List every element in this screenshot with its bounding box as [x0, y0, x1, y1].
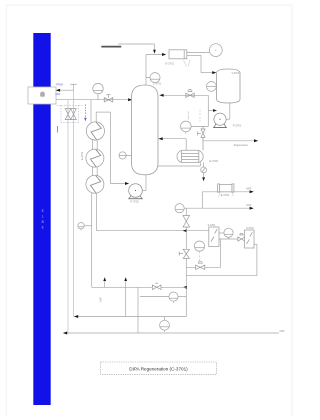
- svg-text:S-3702: S-3702: [246, 227, 254, 230]
- arrowhead down at tie-in: [153, 50, 156, 54]
- dashed signal to valve: [199, 110, 201, 122]
- svg-text:4"PWS: 4"PWS: [56, 84, 64, 86]
- reflux drum V-3702: [217, 69, 241, 103]
- reboiler return to column: [162, 139, 186, 151]
- filter S-3701: [209, 227, 219, 247]
- collect line mid: [76, 316, 187, 318]
- arrowhead left at stamp box: [56, 89, 60, 92]
- drum outlet to pump: [220, 103, 230, 119]
- exchanger E-3702 B: [86, 149, 104, 167]
- exchanger E-3702 C: [86, 175, 104, 193]
- reflux line to column: [162, 94, 209, 96]
- instrument on HX downcomer: [78, 223, 92, 231]
- arrowhead NNF lower: [250, 207, 254, 210]
- arrowhead on header at trunk: [183, 286, 187, 289]
- column bottoms line: [158, 162, 201, 166]
- svg-text:min flow: min flow: [188, 111, 190, 119]
- stamp box on bar: [28, 87, 56, 104]
- corner drop: [201, 192, 203, 208]
- condensate tie-in line: [118, 44, 154, 51]
- drum level instrument: [207, 82, 217, 92]
- bottoms header: [92, 286, 187, 288]
- svg-text:E-3702: E-3702: [80, 151, 84, 160]
- arrowhead into E-3701: [162, 53, 166, 56]
- header valve: [152, 283, 161, 289]
- arrowhead NNF upper: [250, 190, 254, 193]
- blue tick below station: [57, 126, 59, 133]
- svg-text:DIPA Regeneration (C-3701): DIPA Regeneration (C-3701): [129, 366, 188, 371]
- reboiler drain orifice: [201, 163, 207, 178]
- branch down to HX train: [90, 100, 92, 123]
- instrument on feed line: [93, 83, 103, 99]
- instrument on collect line: [160, 317, 170, 332]
- control valve FV on feed line: [104, 95, 113, 102]
- pump P-3702: [128, 184, 143, 199]
- svg-text:E-3704: E-3704: [221, 193, 230, 197]
- arrowhead left collect bottom: [63, 332, 67, 335]
- collect line bottom: [66, 332, 279, 334]
- HX interconnect pipes: [93, 140, 98, 176]
- level instrument between filters: [219, 228, 233, 239]
- trunk pipe right (x=73.5): [73, 90, 75, 316]
- loop control valve: [186, 266, 220, 268]
- arrowhead into pump P-3702: [125, 182, 129, 185]
- block valve 1 (hourglass): [65, 109, 71, 120]
- control valve filters: [238, 233, 245, 241]
- overhead pressure instrument: [209, 44, 222, 57]
- dashed signal to loop valve: [199, 252, 201, 263]
- instrument at NNF lower: [175, 204, 184, 213]
- svg-text:E-3701: E-3701: [166, 62, 175, 66]
- svg-text:NNF: NNF: [100, 297, 103, 302]
- HX bypass line: [96, 112, 127, 183]
- arrowhead into V-3702: [212, 71, 216, 74]
- condenser outlet pipe: [187, 53, 214, 73]
- trunk valve lower (hourglass): [179, 249, 189, 258]
- svg-text:E-3703: E-3703: [210, 159, 219, 163]
- column mid instrument: [119, 152, 132, 159]
- arrowhead drain down: [202, 177, 205, 181]
- reboiler E-3703: [177, 150, 203, 162]
- condenser E-3701: [169, 50, 187, 59]
- arrowhead reflux into column: [159, 94, 163, 97]
- block valve 2 (hourglass): [71, 109, 77, 120]
- svg-text:NNF: NNF: [56, 94, 61, 96]
- svg-text:P-3702: P-3702: [130, 200, 139, 204]
- blue bar vertical text ELBE: [42, 209, 45, 230]
- pump discharge line: [208, 95, 214, 126]
- column bottom outlet to pump: [136, 175, 147, 191]
- aftercooler E-3704: [218, 184, 234, 192]
- level controller over valve: [194, 241, 204, 251]
- wire: vent line with left arrow: [58, 84, 77, 90]
- svg-text:Regenerated: Regenerated: [234, 144, 248, 147]
- label condensate: [101, 46, 121, 48]
- svg-text:NNF: NNF: [246, 204, 251, 207]
- S-3702 outlet loop: [186, 244, 257, 275]
- trunk pipe left (x=68): [67, 100, 69, 333]
- vertical control valve to reboiler: [198, 126, 206, 150]
- svg-text:S-3701: S-3701: [208, 224, 216, 227]
- arrowhead left collect mid: [74, 315, 78, 318]
- cross line to S-vessel trunk: [97, 230, 210, 232]
- NNF line upper: [202, 191, 251, 193]
- drop legs from header: [125, 287, 127, 316]
- column C-3701: [132, 85, 159, 175]
- arrowhead left on cross line: [183, 229, 187, 232]
- drum level controller: [181, 121, 209, 133]
- overhead instrument: [146, 73, 160, 83]
- svg-text:L: L: [42, 214, 44, 218]
- station side dashes: [57, 105, 84, 107]
- arrowhead return into column: [158, 137, 162, 140]
- valve station dashed box: [61, 106, 78, 123]
- NNF line lower: [184, 207, 251, 209]
- transfer line w control valve to S-3702: [219, 238, 245, 240]
- blue dashed signal drop w arrow: [84, 104, 86, 118]
- HX outlet pipes going down: [92, 193, 97, 287]
- arrowhead feed into column: [128, 98, 132, 101]
- S-vessel trunk: [185, 208, 187, 316]
- NNF stub 1: [104, 279, 106, 287]
- arrowhead product: [254, 139, 258, 142]
- overhead vapour line: [146, 55, 164, 86]
- arrowhead on discharge: [213, 109, 217, 112]
- svg-text:P-3701: P-3701: [233, 123, 242, 127]
- riser from loop valve to instrument: [220, 239, 222, 267]
- svg-text:NNF: NNF: [246, 187, 251, 190]
- svg-text:V-3702: V-3702: [232, 72, 240, 75]
- NNF stub 2: [125, 279, 127, 287]
- instrument after header valve: [140, 292, 186, 303]
- stamp logo glyph: [40, 92, 45, 97]
- wire: feed line from stamp box to column: [56, 99, 130, 101]
- trunk valve upper (hourglass): [183, 216, 190, 228]
- reflux control valve: [186, 89, 194, 97]
- filter S-3702: [245, 230, 255, 248]
- regenerated DIPA product line: [203, 140, 256, 142]
- title box: [101, 362, 217, 374]
- exchanger E-3702 A (circle w zigzag): [86, 122, 104, 140]
- pump P-3701: [213, 113, 227, 128]
- blue revision bar: [33, 33, 50, 405]
- svg-text:NNF: NNF: [280, 330, 285, 333]
